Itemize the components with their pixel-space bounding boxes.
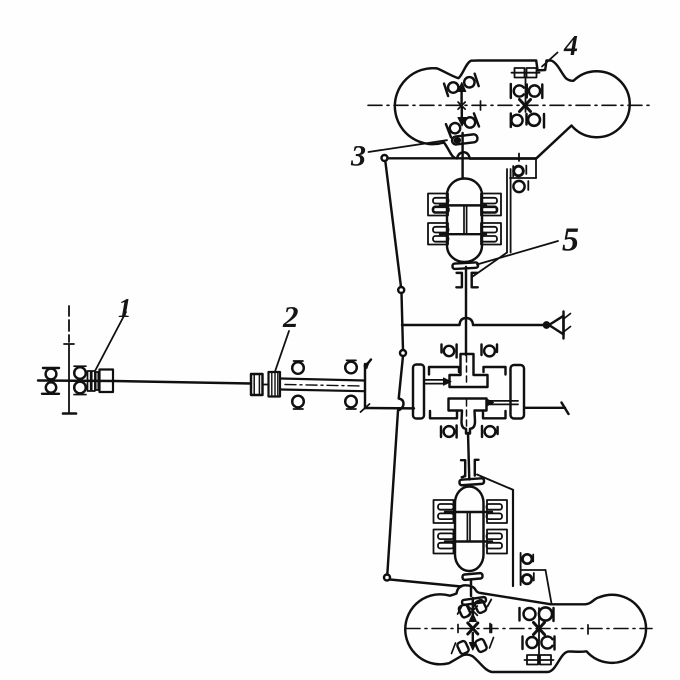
shaft through yoke bbox=[461, 133, 463, 178]
guide hook right bbox=[472, 273, 478, 287]
shaft centerline dash-dot bbox=[285, 385, 362, 387]
svg-text:5: 5 bbox=[562, 222, 579, 259]
upper bracket left bbox=[429, 367, 459, 375]
tilted gear pair lower bbox=[456, 640, 469, 655]
wire: node link to housing bbox=[388, 157, 537, 159]
leader line 3 bbox=[369, 140, 448, 152]
engine axis centerline (dashed vertical) bbox=[63, 306, 76, 414]
shaft below box bbox=[468, 433, 469, 480]
gear |O| lower-left bbox=[441, 426, 457, 438]
front axle housing outline bbox=[395, 61, 630, 159]
rear axle housing outline bbox=[405, 585, 646, 672]
frame vertical lower bbox=[512, 490, 514, 586]
lower spider axis dashed bbox=[466, 400, 468, 431]
gear row |O O| lower right bbox=[511, 114, 544, 128]
propeller shaft down bbox=[465, 267, 467, 355]
svg-text:2: 2 bbox=[282, 299, 299, 334]
thrust bar above capsule bbox=[459, 478, 484, 485]
frame corner vertical bbox=[535, 159, 537, 178]
rear brake symbol bbox=[525, 655, 554, 665]
planet carrier capsule bbox=[455, 487, 484, 572]
wire: axle line B left segment bbox=[365, 407, 414, 410]
carrier double vertical bbox=[464, 205, 467, 234]
left axle arrow bbox=[444, 378, 452, 385]
left half axle double line bbox=[424, 380, 446, 384]
front axle centerline dash-dot bbox=[368, 104, 652, 106]
leader line 2 bbox=[275, 331, 289, 372]
gear circle pair on lower frame bbox=[521, 553, 534, 585]
clutch pack lower-right bbox=[487, 530, 508, 554]
gear circle pair on frame bbox=[513, 154, 528, 193]
gear |O| upper-left bbox=[442, 345, 457, 358]
frame diagonal lower bbox=[477, 475, 513, 490]
frame link to rear axle housing bbox=[390, 580, 461, 587]
thrust plate bar bbox=[452, 262, 478, 269]
gear |O| lower-right bbox=[482, 426, 498, 437]
wire: axle line B right segment bbox=[525, 407, 565, 409]
intermediate shaft (thick, double line) bbox=[281, 379, 364, 392]
clutch pack lower-left bbox=[428, 223, 449, 245]
tick on centerline bbox=[480, 101, 482, 110]
coupling flange bbox=[251, 374, 263, 395]
node N2 bbox=[398, 287, 404, 293]
thrust bar below capsule bbox=[462, 573, 482, 580]
node N4 bbox=[384, 575, 390, 581]
shaft bearing pair A bbox=[292, 361, 304, 409]
upper spider (T piece) bbox=[450, 354, 488, 387]
upper bracket right bbox=[484, 367, 506, 375]
lower bracket right bbox=[483, 411, 506, 418]
shift yoke (pointed by 3) bbox=[452, 134, 478, 145]
bold X gear mesh bbox=[520, 100, 531, 112]
clutch pack upper-right bbox=[481, 194, 501, 216]
leader line 4 bbox=[542, 53, 558, 67]
leader line 1 bbox=[96, 312, 127, 370]
bevel pinion support post bbox=[364, 364, 366, 408]
carrier cross lines bbox=[445, 512, 492, 542]
clutch disc pack (1) bbox=[88, 371, 99, 391]
lower bracket left bbox=[430, 411, 457, 418]
centerline ticks bbox=[458, 625, 492, 633]
clutch pack upper-right bbox=[487, 500, 508, 523]
frame member double line bbox=[507, 169, 511, 253]
small x on centerline bbox=[458, 102, 465, 109]
shaft bearing pair B bbox=[345, 360, 357, 409]
carrier cross lines bbox=[440, 205, 486, 234]
rear right gear row |O O| bbox=[520, 607, 554, 621]
elastic coupling (2) bbox=[263, 372, 281, 397]
node N3 bbox=[400, 350, 406, 356]
carrier double vertical bbox=[467, 512, 470, 542]
wire: linkage line A with hop over shaft bbox=[402, 318, 545, 325]
shaft down arrow bbox=[461, 108, 463, 117]
clutch pack upper-left bbox=[434, 500, 454, 523]
planet carrier capsule bbox=[447, 179, 482, 263]
right cover plate bbox=[511, 365, 525, 419]
brake symbol at top right bbox=[512, 68, 540, 78]
lower spider (T piece) bbox=[449, 399, 487, 434]
frame bracket horizontal bbox=[510, 177, 536, 179]
leader line 5 bbox=[477, 241, 558, 265]
centerline tick rear bbox=[490, 624, 588, 635]
post arrow tip bbox=[365, 360, 371, 368]
bearing B2 (flywheel support) bbox=[74, 366, 86, 394]
gear row |C O| bbox=[511, 84, 543, 98]
gear pair lower-left (tilted) bbox=[446, 113, 479, 137]
wire: engine output shaft line bbox=[38, 381, 251, 384]
vertical gear shaft line bbox=[525, 78, 527, 113]
joint hook right bbox=[475, 460, 479, 476]
frame bracket horizontal lower bbox=[521, 569, 546, 571]
end tick of line B bbox=[562, 403, 569, 415]
svg-text:3: 3 bbox=[350, 140, 366, 173]
corner tick bbox=[361, 404, 370, 412]
arrow below centerline bbox=[472, 633, 474, 643]
tilted collar bar bbox=[462, 597, 486, 605]
right axle arrow bbox=[487, 399, 494, 406]
rear axle centerline dash-dot bbox=[406, 628, 652, 630]
guide hook left bbox=[456, 273, 462, 287]
clutch pack upper-left bbox=[428, 194, 449, 216]
svg-text:4: 4 bbox=[563, 31, 578, 62]
tilted gear pair upper (rear left cluster) bbox=[458, 604, 471, 619]
bearing B1 (left support) bbox=[42, 368, 59, 394]
bold X at rear left bbox=[468, 623, 478, 634]
clutch pack lower-right bbox=[481, 223, 501, 245]
gear |O| upper-right bbox=[482, 345, 498, 357]
rear right gear row |O C| bbox=[523, 637, 555, 650]
frame link upper bbox=[385, 161, 401, 287]
frame corner diagonal lower bbox=[546, 570, 552, 604]
frame link mid bbox=[402, 293, 404, 350]
shaft up arrow bbox=[460, 89, 462, 103]
gear pair upper-left |O O| bbox=[444, 74, 479, 96]
mesh cross on shaft bbox=[468, 606, 477, 615]
anchor symbol bbox=[544, 312, 571, 339]
joint hook left bbox=[461, 460, 465, 477]
vertical gear shaft rear bbox=[538, 608, 540, 664]
frame link lower with hop over line B bbox=[387, 356, 403, 575]
right half axle double line bbox=[490, 401, 518, 405]
svg-text:1: 1 bbox=[118, 293, 132, 323]
upper spider axis dashed bbox=[466, 356, 468, 385]
node N1 bbox=[382, 155, 388, 161]
clutch pack lower-left bbox=[434, 530, 454, 554]
clutch housing bbox=[100, 370, 114, 393]
frame diagonal to planetary unit bbox=[472, 253, 507, 278]
left cover plate bbox=[413, 365, 424, 419]
shaft to rear housing bbox=[470, 580, 472, 597]
bold X rear right bbox=[534, 623, 545, 635]
shaft arrow down to centerline bbox=[472, 598, 474, 621]
